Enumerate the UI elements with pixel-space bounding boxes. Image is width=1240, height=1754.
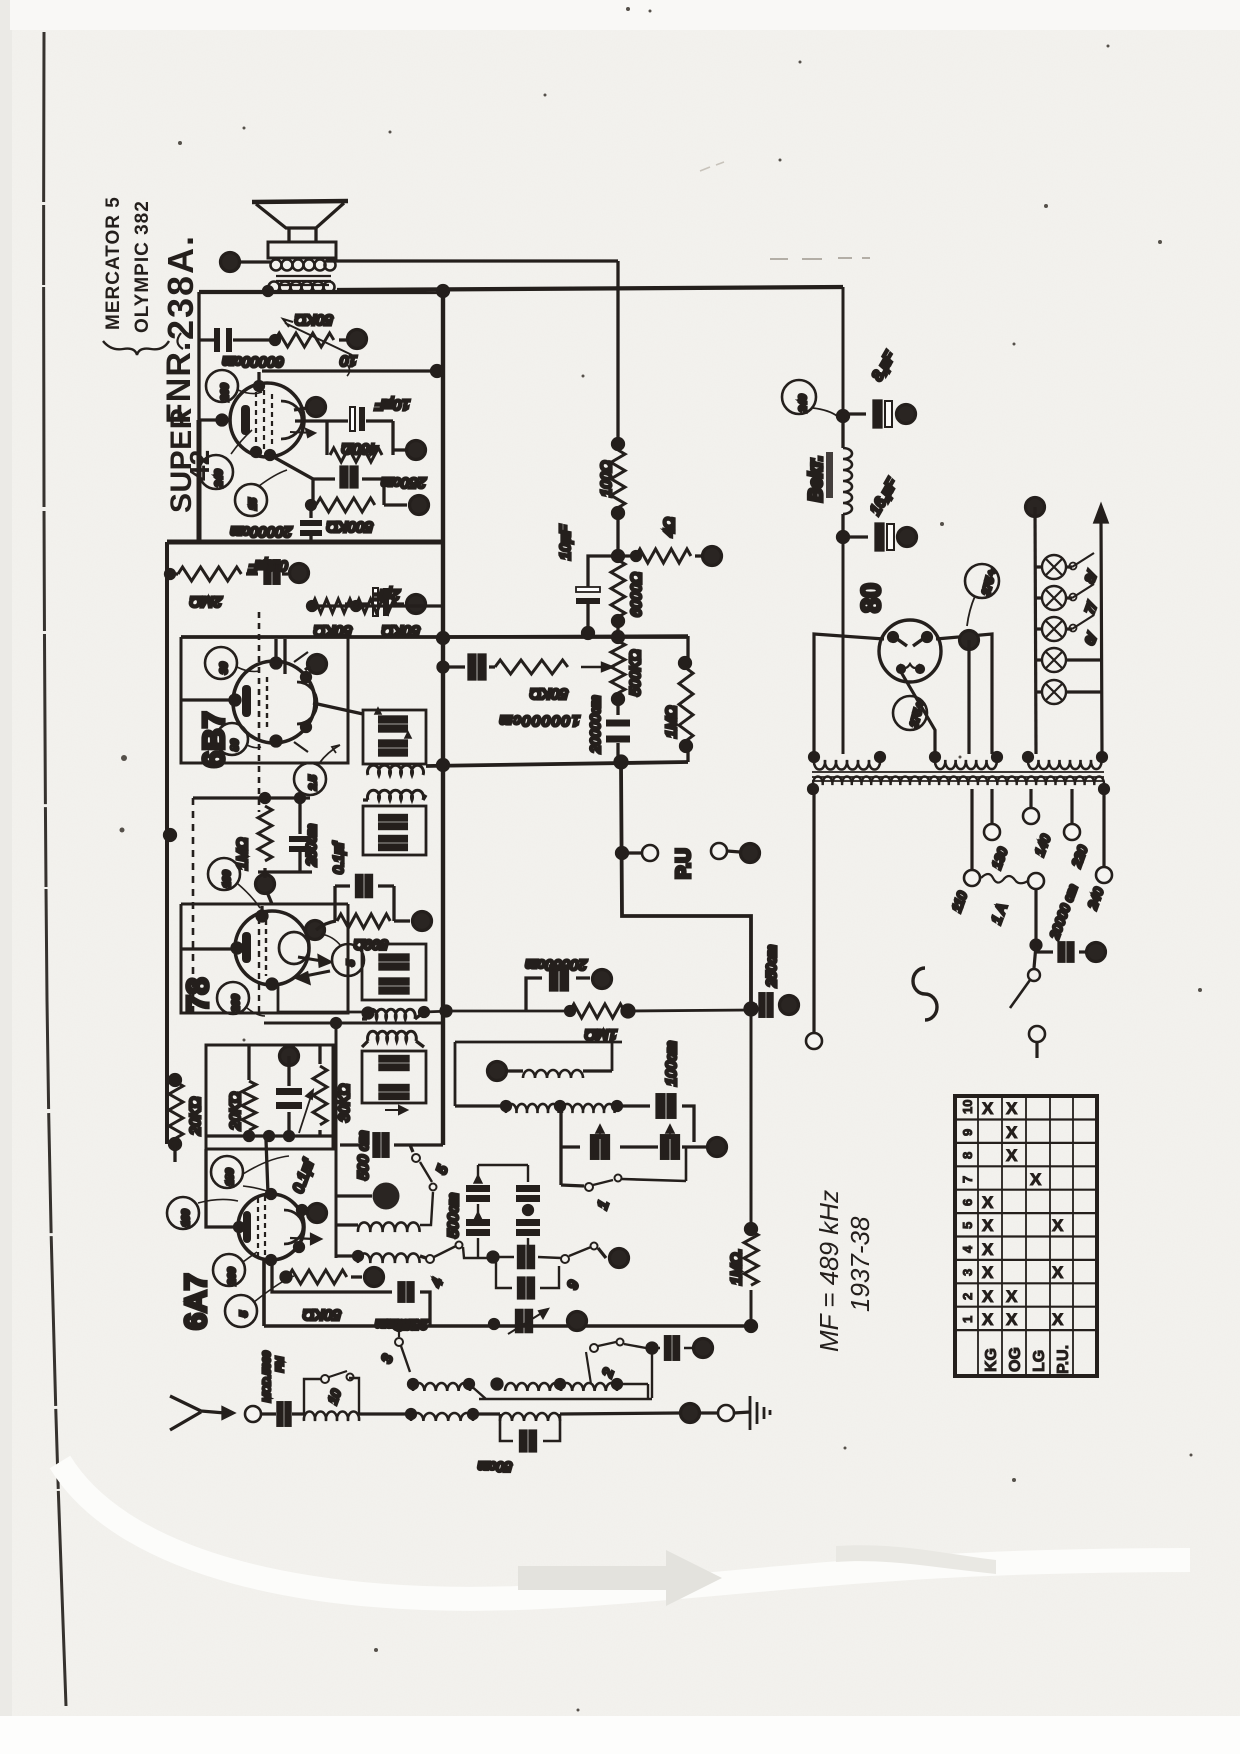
svg-text:2MΩ: 2MΩ	[190, 593, 223, 610]
resistor 500 ohm	[337, 914, 390, 928]
capacitor 500cm osc	[340, 1143, 368, 1146]
resistor 20K inner	[247, 1045, 250, 1139]
coil osc grid b	[562, 1104, 615, 1113]
svg-text:X: X	[1052, 1216, 1064, 1235]
arrow 30K	[299, 1090, 313, 1133]
wire grid top	[206, 1140, 268, 1227]
wire cathode down	[270, 455, 313, 479]
svg-text:FM: FM	[274, 1357, 286, 1372]
coil osc grid a	[455, 1104, 506, 1107]
svg-text:100000cm: 100000cm	[498, 712, 580, 729]
svg-text:10µF: 10µF	[557, 525, 574, 560]
svg-text:X: X	[1030, 1170, 1042, 1189]
capacitor 20000cm mains	[1036, 950, 1053, 953]
svg-text:500KΩ: 500KΩ	[327, 518, 373, 535]
trimmer column b	[527, 1165, 529, 1247]
svg-text:1MΩ: 1MΩ	[663, 706, 680, 738]
svg-text:250cm: 250cm	[375, 1317, 418, 1333]
wire 80 left	[814, 634, 884, 754]
trimmer lower branch	[488, 1252, 498, 1262]
svg-text:2.5: 2.5	[307, 775, 319, 791]
transformer primary coil 3	[1028, 760, 1102, 769]
wire y762 junction	[615, 756, 627, 768]
capacitor 250cm 6A7	[272, 1261, 430, 1325]
capacitor IF1d	[380, 836, 406, 850]
svg-text:7: 7	[960, 1176, 975, 1183]
resistor 1M vertical	[193, 798, 310, 872]
ref circle 180	[211, 1156, 243, 1188]
resistor 6000 ohm	[611, 560, 625, 617]
svg-text:50KΩ: 50KΩ	[295, 311, 333, 328]
svg-text:X: X	[982, 1263, 994, 1282]
potentiometer 500K	[611, 641, 625, 693]
6B7 box	[181, 637, 348, 763]
resistor 400 ohm	[327, 421, 393, 455]
node bus top	[438, 286, 449, 297]
svg-text:50KΩ: 50KΩ	[530, 685, 568, 702]
svg-text:260: 260	[226, 1267, 238, 1286]
capacitor 250cm vertical	[258, 798, 312, 872]
terminal dot 375 tap	[960, 631, 979, 650]
svg-text:KG: KG	[983, 1348, 1000, 1372]
ref circle 2.5	[294, 763, 326, 795]
scan fold line left edge	[44, 32, 66, 1706]
node rail top	[613, 439, 624, 450]
output transformer primary coil	[271, 260, 336, 271]
ref circle 5 6A7	[225, 1295, 257, 1327]
capacitor 50cm	[500, 1414, 560, 1441]
IF2 box bottom	[362, 1051, 426, 1103]
wire to coil2	[359, 1412, 411, 1415]
svg-text:500KΩ: 500KΩ	[627, 650, 644, 696]
resistor 100 ohm	[611, 450, 625, 508]
capacitor 250cm avc	[490, 1320, 499, 1329]
svg-text:20KΩ: 20KΩ	[227, 1092, 244, 1131]
switch lamp3	[1072, 615, 1094, 629]
svg-text:240: 240	[213, 469, 225, 488]
svg-text:6A7: 6A7	[178, 1273, 213, 1330]
capacitor pad b	[662, 1136, 679, 1159]
svg-text:X: X	[1006, 1310, 1018, 1329]
capacitor 0.1uF	[265, 561, 279, 584]
svg-text:6B7: 6B7	[196, 711, 231, 768]
svg-text:MOD.5000: MOD.5000	[261, 1351, 273, 1402]
arrow IF2 bottom	[385, 1106, 407, 1114]
capacitor 100cm	[617, 1106, 694, 1142]
svg-text:100cm: 100cm	[663, 1041, 680, 1086]
node junction y556	[613, 551, 624, 562]
wire bus x443	[441, 292, 445, 1145]
svg-text:250cm: 250cm	[303, 824, 319, 867]
switch 2	[586, 1352, 591, 1384]
terminal PU left	[628, 851, 641, 854]
svg-text:6000Ω: 6000Ω	[628, 572, 645, 617]
wire inner bottom	[206, 1134, 333, 1137]
svg-text:X: X	[982, 1240, 994, 1259]
terminal dot cathode 78	[256, 875, 275, 894]
transformer secondary winding	[813, 776, 1104, 785]
svg-text:5: 5	[960, 1222, 975, 1229]
wire lamp right line with arrow	[1095, 506, 1107, 754]
wire 42 box bottom	[167, 420, 443, 542]
faint gray arrow artifact	[518, 1550, 722, 1606]
STAGE6A7	[167, 1019, 757, 1334]
capacitor pad a	[592, 1136, 609, 1159]
antenna symbol	[170, 1396, 233, 1430]
svg-text:15: 15	[247, 498, 259, 510]
svg-text:500cm: 500cm	[445, 1193, 462, 1238]
wire tube to box	[182, 639, 285, 700]
svg-text:2µF: 2µF	[373, 586, 401, 603]
svg-text:3: 3	[960, 1269, 975, 1276]
terminal dot 500ohm	[394, 919, 410, 922]
terminal dot 400 right	[393, 448, 405, 451]
TABLE	[955, 1096, 1097, 1376]
svg-text:20KΩ: 20KΩ	[187, 1097, 204, 1136]
switch 4	[420, 1256, 426, 1258]
wire B+ rail x618	[616, 261, 619, 637]
arrows pads	[596, 1125, 674, 1139]
arrow tube right	[290, 429, 315, 437]
coil IF1 primary	[368, 765, 424, 775]
IF2 box top	[362, 944, 426, 1000]
svg-text:250cm: 250cm	[381, 474, 427, 491]
svg-text:LG: LG	[1031, 1350, 1048, 1372]
tap 240	[1102, 789, 1105, 866]
svg-text:30KΩ: 30KΩ	[336, 1084, 353, 1122]
svg-text:X: X	[982, 1099, 994, 1118]
svg-text:1: 1	[960, 1316, 975, 1323]
78 box	[181, 904, 348, 1013]
svg-text:6: 6	[960, 1199, 975, 1206]
MIDCOLUMN	[438, 261, 917, 1326]
node lamp bus top	[1026, 498, 1045, 517]
switch lamp2	[1072, 584, 1094, 598]
capacitor 20000cm det	[526, 978, 590, 1011]
svg-text:80: 80	[856, 583, 886, 613]
capacitor IF1b	[380, 741, 406, 755]
switch 1	[561, 1185, 584, 1186]
pot arrow	[283, 319, 352, 355]
coil IF2 primary	[367, 1009, 416, 1019]
arrow 6A7	[290, 1234, 321, 1244]
switch lamp1	[1072, 553, 1094, 567]
lamp 4	[1042, 648, 1066, 672]
resistor 50K avc	[495, 660, 568, 674]
ref circle 375 bottom	[893, 696, 927, 730]
coil band b	[505, 1383, 561, 1391]
tube 6A7	[238, 1194, 304, 1260]
svg-text:0.1µF: 0.1µF	[249, 557, 288, 574]
STAGE78	[165, 794, 752, 1115]
terminal antenna	[245, 1406, 261, 1422]
transformer primary coil 2	[935, 760, 997, 769]
svg-text:250cm: 250cm	[763, 945, 779, 988]
coil IF1 secondary	[368, 790, 424, 800]
terminal dot pot right	[339, 338, 348, 341]
svg-text:60000cm: 60000cm	[222, 353, 284, 370]
node 8uF	[838, 411, 849, 422]
svg-text:5: 5	[345, 960, 357, 966]
wire top line 6B7 y637	[181, 635, 688, 639]
svg-text:10µF: 10µF	[375, 396, 410, 413]
svg-text:P.U: P.U	[673, 848, 695, 879]
capacitor IF2d	[380, 1085, 408, 1099]
svg-text:MF = 489 kHz: MF = 489 kHz	[814, 1190, 844, 1352]
terminal dot grid top	[308, 655, 327, 674]
capacitor 10uF	[327, 419, 393, 422]
svg-text:50KΩ: 50KΩ	[303, 1306, 341, 1323]
terminal PU right	[711, 843, 727, 859]
wire y637 heavy	[443, 636, 688, 637]
AC mains symbol	[913, 968, 937, 1020]
svg-text:100Ω: 100Ω	[598, 461, 615, 497]
capacitor IF2b	[380, 979, 408, 993]
SPEAKER42	[167, 201, 843, 1145]
transformer primary coil 1	[814, 760, 880, 770]
node secondary left	[264, 287, 273, 296]
wire to coil3	[473, 1412, 500, 1415]
table row lines	[955, 1120, 1097, 1331]
coil ant pri 1	[336, 1223, 358, 1226]
svg-text:80: 80	[229, 739, 241, 751]
terminal dot pad	[708, 1138, 727, 1157]
svg-text:100: 100	[221, 870, 233, 888]
tap 140	[1029, 789, 1032, 807]
svg-text:MERCATOR 5: MERCATOR 5	[103, 196, 124, 330]
wire primary left lead	[240, 260, 272, 263]
capacitor 250cm	[313, 477, 384, 480]
svg-text:1MΩ: 1MΩ	[585, 1026, 617, 1043]
svg-text:260: 260	[219, 383, 231, 402]
ground symbol	[750, 1396, 770, 1430]
brace before 238A	[177, 333, 183, 349]
terminal dot 6A7 plate	[308, 1204, 327, 1223]
coil band a	[413, 1383, 470, 1391]
resistor 50K b	[356, 599, 397, 613]
svg-text:OLYMPIC 382: OLYMPIC 382	[132, 200, 153, 333]
svg-text:5: 5	[238, 1311, 250, 1317]
coil osc feedback	[523, 1070, 583, 1078]
wire grid line y371	[262, 369, 443, 372]
resistor 1M bleeder	[686, 636, 689, 762]
ref circle 260 6A7	[213, 1254, 245, 1286]
wire sec left leg	[812, 789, 815, 1032]
lamp 3	[1042, 617, 1066, 641]
svg-text:400Ω: 400Ω	[342, 440, 378, 457]
resistor 50K a	[312, 599, 353, 613]
svg-text:20000cm: 20000cm	[587, 695, 603, 754]
svg-text:4: 4	[960, 1245, 975, 1253]
tube 42	[230, 383, 304, 457]
terminal gnd ring	[718, 1405, 734, 1421]
capacitor 10000cm	[443, 665, 495, 668]
capacitor 10uF elec	[588, 556, 618, 633]
wire avc dashed	[192, 798, 195, 1013]
wire down to transformer	[842, 537, 845, 754]
ref circle 5	[332, 944, 364, 976]
capacitor pad2	[647, 1343, 657, 1353]
wire tube bottom to IF2	[278, 984, 368, 1012]
lamp 5	[1042, 680, 1066, 704]
svg-text:X: X	[982, 1216, 994, 1235]
6A7 box	[206, 1045, 333, 1149]
POWER	[806, 498, 1112, 1059]
wire plate to 10uF loop	[295, 419, 327, 422]
ref circle 100 6A7	[167, 1197, 199, 1229]
resistor 30K	[318, 1045, 321, 1136]
terminal dot 0.1uF right	[290, 564, 309, 583]
IF1 box bottom	[363, 806, 426, 855]
resistor 500K	[313, 479, 384, 505]
svg-text:100: 100	[180, 1209, 192, 1227]
capacitor IF2a	[380, 955, 408, 969]
wire plate right	[313, 703, 363, 714]
transformer core	[812, 772, 1104, 781]
ref circle 100	[208, 858, 240, 890]
tap 220	[1070, 789, 1073, 823]
svg-text:20000cm: 20000cm	[525, 956, 588, 973]
ANTENNA	[170, 1309, 770, 1475]
wire fuse down	[1034, 889, 1037, 945]
resistor 20K rail	[169, 1082, 183, 1138]
svg-text:9: 9	[960, 1129, 975, 1136]
wire down to avc	[750, 1009, 753, 1326]
switch 10 shunt	[304, 1378, 359, 1414]
svg-text:240: 240	[797, 394, 809, 413]
table column lines	[978, 1096, 1073, 1376]
terminal dot osc coil	[488, 1062, 507, 1081]
ref circle 240 right	[782, 380, 816, 414]
ref circle 375 top	[965, 564, 999, 598]
resistor 4 ohm	[618, 554, 636, 557]
svg-text:X: X	[982, 1310, 994, 1329]
field coil Bekr	[841, 416, 844, 537]
terminal dot osc blob	[377, 1187, 396, 1206]
svg-text:X: X	[1006, 1123, 1018, 1142]
artifact faint dashes top	[770, 258, 870, 259]
pot wiper arrow	[581, 663, 612, 671]
ref circle 15	[235, 484, 267, 516]
ref circle 240	[199, 455, 233, 489]
resistor 2M	[178, 567, 241, 581]
fuse 1A	[981, 874, 1028, 883]
capacitor IF1a	[380, 717, 406, 731]
tube 78	[235, 911, 309, 985]
wire 80 right	[936, 634, 992, 754]
svg-text:X: X	[1052, 1310, 1064, 1329]
ref circle 30	[205, 647, 237, 679]
capacitor 8uF	[843, 412, 898, 415]
switch 9	[492, 1257, 561, 1258]
svg-text:500 cm: 500 cm	[355, 1131, 372, 1180]
svg-text:P.U.: P.U.	[1055, 1345, 1072, 1374]
lamp 1	[1042, 555, 1066, 579]
resistor 1M det	[570, 1004, 624, 1018]
wire primary to B+ rail	[327, 259, 618, 262]
tap 110	[970, 789, 973, 869]
svg-text:1937-38: 1937-38	[845, 1216, 875, 1312]
terminal dot 4ohm	[703, 547, 722, 566]
node 16uF	[838, 532, 849, 543]
svg-text:Bekr.: Bekr.	[806, 456, 827, 502]
brace under titles	[103, 341, 169, 355]
ref circle 260	[206, 370, 238, 402]
capacitor 16uF	[843, 535, 899, 538]
white swoosh artifact bottom	[60, 1462, 1190, 1599]
output transformer secondary coil	[269, 282, 335, 293]
switch mains	[1034, 945, 1036, 968]
band table frame	[955, 1096, 1097, 1376]
resistor 50K 6A7	[281, 1272, 291, 1282]
svg-text:X: X	[1006, 1099, 1018, 1118]
tube 80 rectifier	[879, 620, 941, 682]
terminal dot 78 plate	[306, 921, 325, 940]
capacitor 0.1uF 6A7	[287, 1056, 290, 1136]
resistor 1M avc vertical	[744, 1231, 758, 1285]
wire 50k50k line	[310, 604, 443, 607]
capacitor antenna	[278, 1403, 291, 1426]
node rail top	[170, 1075, 181, 1086]
wire 2M line	[167, 572, 288, 575]
wire y1023	[264, 1022, 443, 1025]
STAGE6B7	[166, 542, 689, 1144]
wire x561 down	[561, 1106, 580, 1185]
capacitor 250cm pu	[751, 1003, 757, 1006]
node 1M line	[745, 1003, 757, 1015]
ref circle 80	[216, 723, 248, 755]
IF1 box top	[363, 710, 426, 764]
wire bus x336	[335, 1023, 338, 1258]
wire det line y1011	[424, 1010, 751, 1012]
capacitor 60000cm	[199, 338, 275, 341]
wire down to PU	[621, 762, 751, 1010]
svg-text:50cm: 50cm	[477, 1459, 512, 1475]
terminal dot gnd	[681, 1404, 700, 1423]
svg-text:78: 78	[180, 978, 215, 1012]
wire line B to 843	[842, 287, 845, 416]
tap 130	[990, 789, 993, 823]
wire IF1 out y772	[426, 762, 688, 766]
wire left edge 42 box	[197, 292, 200, 420]
node y633	[583, 628, 594, 639]
ref circle 260	[217, 982, 249, 1014]
terminal dot osc grid	[280, 1047, 299, 1066]
svg-text:30: 30	[218, 662, 230, 674]
oscillator box	[455, 1042, 622, 1106]
lamp 2	[1042, 586, 1066, 610]
wire grid/cathode	[181, 906, 262, 949]
svg-text:20000cm: 20000cm	[230, 523, 293, 540]
potentiometer 50K	[275, 333, 334, 347]
switch 5 osc	[412, 1154, 420, 1162]
capacitor 20000cm mid	[616, 699, 619, 762]
svg-text:1MΩ.: 1MΩ.	[728, 1249, 745, 1285]
transformer core	[276, 276, 331, 285]
terminal dot 500K right	[384, 503, 407, 506]
svg-text:2: 2	[960, 1293, 975, 1300]
wire lamp bus	[1035, 507, 1036, 754]
svg-text:260: 260	[230, 994, 242, 1013]
svg-text:10: 10	[960, 1100, 975, 1114]
capacitor 0.1uf 78	[335, 886, 394, 921]
arrow 78 mixer	[298, 956, 330, 966]
wire 80 filament taps	[901, 672, 935, 754]
svg-text:8: 8	[960, 1152, 975, 1159]
svg-text:OG: OG	[1007, 1347, 1024, 1372]
wire outer left rail	[165, 542, 169, 1144]
svg-text:X: X	[1006, 1287, 1018, 1306]
